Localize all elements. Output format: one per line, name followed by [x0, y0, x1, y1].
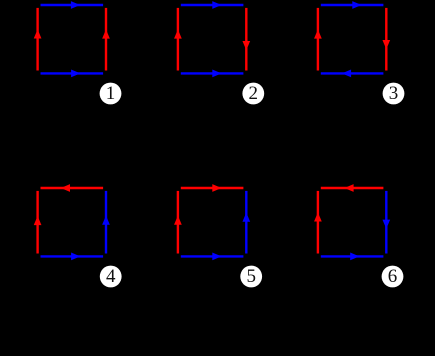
label 5 (circled number) — [240, 266, 262, 288]
label 2 (circled number) — [242, 83, 264, 105]
label 6 (circled number) — [382, 266, 404, 288]
label 1 (circled number) — [100, 83, 122, 105]
square 5 bottom edge (blue, arrow R) — [181, 255, 244, 257]
square 6 — [314, 184, 403, 287]
square 2 left edge (red, arrow U) — [177, 8, 179, 71]
square 4 — [34, 184, 122, 287]
square 1 right edge (red, arrow U) — [105, 8, 107, 71]
square 3 bottom edge (blue, arrow L) — [321, 72, 384, 74]
square 5 — [174, 184, 262, 287]
square 5 top edge (red, arrow R) — [181, 187, 244, 189]
square 4 bottom edge (blue, arrow R) — [41, 255, 104, 257]
square 4 left edge (red, arrow U) — [36, 191, 38, 254]
square 2 top edge (blue, arrow R) — [181, 4, 244, 6]
square 4 top edge (red, arrow L) — [41, 187, 104, 189]
square 3 left edge (red, arrow U) — [317, 8, 319, 71]
square 2 right edge (red, arrow D) — [245, 8, 247, 71]
svg-text:2: 2 — [249, 83, 259, 104]
square 3 — [314, 1, 404, 104]
svg-text:3: 3 — [389, 83, 399, 104]
square 5 left edge (red, arrow U) — [177, 191, 179, 254]
square 3 right edge (red, arrow D) — [385, 8, 387, 71]
square 6 bottom edge (blue, arrow R) — [321, 255, 384, 257]
square 1 left edge (red, arrow U) — [36, 8, 38, 71]
svg-text:1: 1 — [106, 83, 116, 104]
label 3 (circled number) — [383, 83, 405, 105]
square 2 bottom edge (blue, arrow R) — [181, 72, 244, 74]
square 6 right edge (blue, arrow D) — [385, 191, 387, 254]
square 6 top edge (red, arrow L) — [321, 187, 384, 189]
square 1 bottom edge (blue, arrow R) — [41, 72, 104, 74]
square 5 right edge (blue, arrow U) — [245, 191, 247, 254]
svg-text:4: 4 — [106, 266, 116, 287]
svg-text:5: 5 — [246, 266, 256, 287]
square 3 top edge (blue, arrow R) — [321, 4, 384, 6]
svg-text:6: 6 — [388, 266, 398, 287]
square 6 left edge (red, arrow U) — [317, 191, 319, 254]
square 2 — [174, 1, 264, 104]
square 1 top edge (blue, arrow R) — [41, 4, 104, 6]
square 1 — [34, 1, 122, 104]
square 4 right edge (blue, arrow U) — [105, 191, 107, 254]
label 4 (circled number) — [100, 266, 122, 288]
